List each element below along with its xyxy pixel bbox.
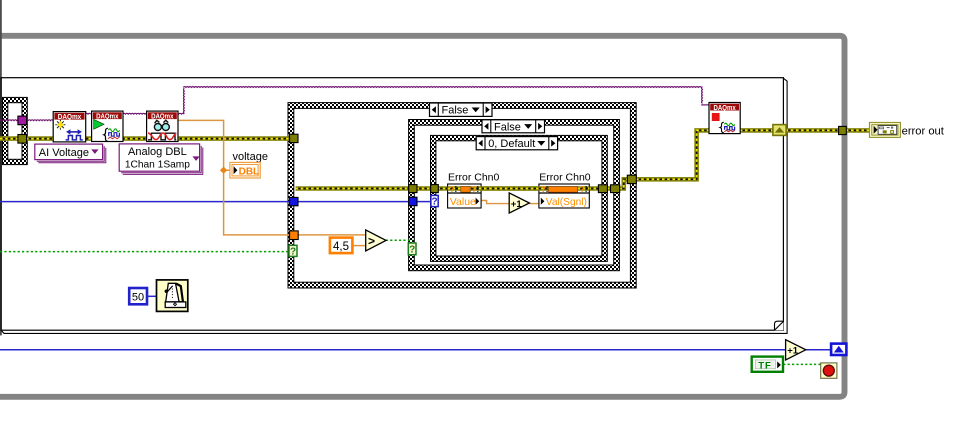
svg-text:?!: ?! bbox=[541, 185, 549, 194]
constant 50 bbox=[129, 288, 147, 304]
svg-text:?: ? bbox=[409, 244, 415, 255]
tunnel error (event left) bbox=[431, 185, 439, 193]
svg-text:Error Chn0: Error Chn0 bbox=[448, 172, 500, 184]
wire i32 blue increment to SR bbox=[805, 349, 832, 351]
svg-text:error out: error out bbox=[902, 125, 945, 137]
DAQmx Read VI bbox=[147, 111, 178, 141]
DAQmx Clear Task VI bbox=[709, 103, 740, 134]
wire task purple top run bbox=[183, 86, 701, 89]
increment node +1 bbox=[509, 193, 529, 213]
svg-text:AI Voltage: AI Voltage bbox=[39, 147, 89, 159]
event structure 0 Default bbox=[431, 135, 608, 261]
wire task purple left bbox=[0, 119, 53, 122]
wire bool TF to stop bbox=[783, 363, 821, 365]
dog-ear folded corner bbox=[774, 321, 783, 331]
case structure False inner bbox=[409, 120, 620, 271]
svg-text:+1: +1 bbox=[787, 346, 799, 357]
local variable DBL bbox=[230, 162, 260, 178]
wire task purple VI2-riser bbox=[123, 112, 185, 115]
wire i32 blue case A bbox=[298, 201, 410, 203]
tunnel error disable structure (triangle) bbox=[773, 125, 786, 136]
DAQmx Start Task VI bbox=[92, 111, 123, 141]
svg-text:>: > bbox=[368, 234, 375, 248]
shared variable node Error Chn0 (write) box bbox=[539, 184, 589, 208]
wire error clear to disable tunnel bbox=[740, 128, 774, 133]
wire error to error out bbox=[846, 128, 870, 133]
tunnel selector ? (inner case left) bbox=[408, 243, 416, 255]
selector label False (inner case) bbox=[482, 120, 545, 133]
DAQmx Timing VI bbox=[53, 112, 85, 142]
svg-text:+1: +1 bbox=[511, 199, 523, 210]
svg-text:50: 50 bbox=[132, 292, 144, 304]
svg-text:?: ? bbox=[290, 247, 296, 258]
left case structure bbox=[3, 97, 28, 164]
wire i32 blue left bbox=[0, 201, 290, 203]
tunnel error (inner case left) bbox=[409, 185, 417, 193]
wire i32 blue case B bbox=[417, 201, 432, 203]
stop button bbox=[821, 363, 837, 378]
ring constant AI Voltage bbox=[37, 146, 104, 161]
svg-text:?!: ?! bbox=[472, 185, 480, 194]
svg-text:0, Default: 0, Default bbox=[488, 138, 535, 150]
wire dbl from read VI bbox=[178, 120, 290, 234]
tunnel task purple (left case) bbox=[18, 116, 27, 125]
svg-text:?!: ?! bbox=[580, 185, 588, 194]
tunnel error (event right) bbox=[598, 185, 607, 193]
tunnel selector ? (event left) bbox=[431, 195, 438, 206]
selector label 0 Default (event) bbox=[476, 137, 557, 150]
wire error node run bbox=[438, 186, 599, 191]
svg-text:TF: TF bbox=[758, 360, 772, 371]
wire error through nodes bbox=[448, 186, 590, 191]
svg-text:Analog DBL: Analog DBL bbox=[128, 146, 187, 158]
tunnel error (inner case right) bbox=[611, 185, 620, 193]
svg-text:4,5: 4,5 bbox=[333, 241, 349, 253]
selector label False (outer case) bbox=[430, 103, 493, 116]
wire error to clear VI bbox=[636, 130, 710, 179]
wire i32 blue bottom bbox=[0, 349, 786, 351]
tunnel error (while loop border) bbox=[839, 126, 847, 134]
svg-text:?: ? bbox=[431, 197, 437, 208]
wire task purple VI1-VI2 bbox=[85, 112, 91, 115]
junction dbl diamond bbox=[220, 167, 227, 174]
shared variable node Error Chn0 (read) box bbox=[448, 184, 482, 208]
svg-text:DAQmx: DAQmx bbox=[96, 113, 118, 120]
svg-text:?!: ?! bbox=[450, 185, 458, 194]
wire error case inner run A bbox=[296, 186, 410, 191]
increment node +1 (loop counter) bbox=[786, 340, 806, 360]
tunnel i32 (outer case left) bbox=[290, 197, 298, 205]
wire error case inner run B bbox=[417, 186, 432, 191]
case structure False outer bbox=[288, 103, 636, 288]
tunnel error (outer case left) bbox=[290, 134, 298, 142]
indicator error out bbox=[869, 122, 900, 137]
wire error jog up bbox=[620, 179, 628, 188]
wire task purple drop to clear bbox=[701, 87, 704, 104]
wire task purple riser bbox=[183, 88, 186, 113]
tunnel error (outer case right) bbox=[627, 175, 636, 183]
constant 4,5 bbox=[330, 238, 353, 254]
node write ValSgnl text bbox=[541, 198, 545, 205]
diagram disable structure frame bbox=[1, 78, 783, 331]
svg-text:DAQmx: DAQmx bbox=[58, 114, 82, 121]
wire dbl increment to valsgnl bbox=[529, 203, 539, 205]
ring constant Analog DBL 1Chan 1Samp bbox=[121, 146, 201, 173]
boolean constant TF bbox=[752, 357, 783, 372]
tunnel error (left case) bbox=[18, 135, 27, 144]
wire dbl 4,5 to compare bbox=[353, 245, 367, 247]
svg-text:DBL: DBL bbox=[239, 166, 260, 177]
comparison greater-than node bbox=[366, 230, 386, 251]
wire bool compare to tunnel bbox=[386, 239, 413, 241]
wire dbl inside case bbox=[298, 234, 367, 236]
wire error disable to loop tunnel bbox=[786, 128, 840, 133]
wire dbl stub to local var bbox=[227, 169, 231, 171]
svg-text:Val(Sgnl): Val(Sgnl) bbox=[546, 197, 587, 208]
svg-text:voltage: voltage bbox=[233, 151, 268, 163]
shift register terminal (blue) bbox=[831, 344, 846, 355]
wire 50 to wait bbox=[147, 295, 157, 297]
svg-text:False: False bbox=[494, 121, 521, 133]
tunnel i32 (inner case left) bbox=[409, 197, 417, 206]
svg-text:Error Chn0: Error Chn0 bbox=[539, 172, 591, 184]
tunnel selector ? (outer case left) bbox=[289, 245, 297, 256]
tunnel dbl (outer case left) bbox=[290, 231, 299, 240]
svg-text:1Chan 1Samp: 1Chan 1Samp bbox=[125, 159, 190, 170]
wire dbl value to increment bbox=[481, 201, 509, 204]
svg-text:Value: Value bbox=[450, 196, 476, 208]
while loop border bbox=[0, 36, 845, 397]
left diagram edge line bbox=[0, 0, 2, 335]
svg-text:False: False bbox=[442, 105, 469, 117]
wire bool dotted left bbox=[0, 251, 289, 253]
svg-text:DAQmx: DAQmx bbox=[714, 105, 736, 112]
wire error main left run bbox=[0, 136, 290, 141]
wait until next ms multiple VI bbox=[157, 280, 188, 312]
svg-text:DAQmx: DAQmx bbox=[151, 113, 173, 120]
wire error between borders bbox=[607, 186, 611, 191]
